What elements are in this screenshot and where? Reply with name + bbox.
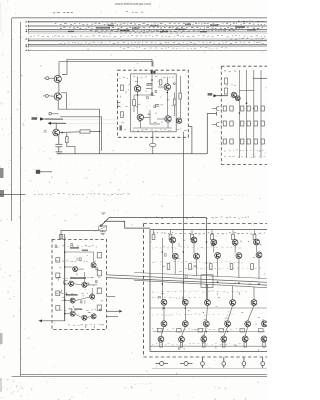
node: [206, 262, 208, 264]
bus wire: [28, 31, 267, 33]
node: [64, 283, 66, 285]
transistor QL4: [82, 282, 87, 287]
resistor: [97, 253, 101, 258]
resistor: [219, 329, 224, 332]
terminal arrow 3: [38, 319, 64, 322]
margin text: [126, 11, 143, 12]
bus labels text row: [120, 47, 227, 48]
bus wire: [28, 25, 267, 27]
node: [163, 307, 165, 309]
resistor R2: [66, 133, 75, 154]
resistor R1: [80, 130, 90, 133]
wire: [232, 230, 234, 235]
wire: [183, 137, 185, 302]
resistor: [189, 264, 192, 270]
module label text: [56, 309, 100, 310]
transistor Q2: [54, 93, 61, 100]
wire: [253, 77, 267, 79]
resistor: [230, 264, 233, 270]
bus wire: [28, 40, 267, 42]
module label text: [152, 247, 241, 248]
bus wire: [28, 21, 267, 23]
node: [64, 299, 66, 301]
bus wire: [28, 29, 267, 31]
connector J1: [156, 362, 169, 366]
node: [182, 251, 184, 253]
transistor QL2: [91, 263, 96, 268]
module inner box: [131, 74, 177, 132]
node: [246, 102, 248, 104]
wire: [207, 112, 216, 154]
module parts scatter: [55, 244, 103, 329]
module label text: [56, 294, 97, 295]
module label text: [177, 129, 187, 130]
capacitor C2: [146, 84, 150, 86]
wire: [188, 127, 192, 154]
wire: [153, 230, 155, 235]
wire: [161, 238, 259, 336]
module label text: [152, 314, 234, 315]
resistor R5: [159, 80, 162, 85]
module label text: [152, 328, 243, 329]
transistor QB3: [215, 253, 221, 259]
resistor: [203, 342, 205, 347]
module label text: [133, 130, 171, 131]
wire: [64, 240, 66, 322]
transistor Q4: [134, 86, 140, 92]
transistor QB4: [236, 253, 242, 259]
transistor Q1: [54, 75, 61, 82]
wire: [57, 153, 207, 155]
margin text: [53, 11, 73, 13]
node: [217, 281, 219, 283]
resistor: [232, 234, 235, 239]
node: [167, 92, 169, 94]
transistor QA2: [191, 237, 197, 243]
terminal node: [49, 112, 59, 115]
wire: [134, 280, 267, 288]
module label text: [152, 343, 240, 344]
module label text: [226, 84, 236, 86]
transistor QA3: [211, 240, 217, 246]
transistor QD4: [225, 321, 231, 327]
wire: [134, 273, 267, 279]
lamp symbol: [150, 143, 156, 146]
wire: [55, 123, 57, 129]
terminal bracket: [212, 106, 219, 110]
node: [227, 331, 229, 333]
wire: [90, 131, 100, 133]
module label text: [56, 246, 97, 247]
node: [206, 331, 208, 333]
resistor: [97, 288, 101, 293]
connector P2: [222, 357, 226, 368]
wire: [0, 194, 25, 196]
module label text: [224, 156, 265, 157]
module box dashed 2: [221, 66, 267, 164]
resistor R8: [120, 112, 123, 118]
pad: [151, 71, 156, 74]
node: [258, 283, 260, 285]
bus labels text row: [228, 21, 263, 22]
wire: [206, 218, 208, 300]
transistor QL7: [70, 311, 75, 316]
diode row: [223, 121, 264, 126]
module label text: [66, 247, 88, 310]
resistor: [160, 342, 162, 347]
ground: [100, 230, 106, 235]
node: [61, 132, 63, 134]
resistor: [97, 305, 101, 310]
module label text: [119, 77, 128, 80]
wire: [179, 99, 181, 118]
module parts scatter: [135, 81, 175, 122]
wire: [211, 230, 213, 235]
wire: [107, 275, 268, 283]
relay coil: [99, 226, 107, 230]
terminal bracket: [212, 122, 219, 126]
connector P1: [201, 357, 205, 368]
transistor QL6: [90, 294, 95, 299]
resistor: [56, 306, 60, 311]
terminal arrow: [48, 122, 118, 125]
resistor: [223, 342, 225, 347]
bus labels text row: [60, 42, 264, 43]
bus labels text row: [230, 38, 266, 39]
connector J2: [180, 362, 193, 366]
module label text: [155, 77, 174, 78]
resistor: [56, 273, 60, 278]
terminal 2x: [208, 93, 228, 97]
module box dashed 3: [52, 240, 107, 330]
resistor: [251, 264, 254, 270]
transistor Q5: [164, 84, 170, 90]
bus wire: [28, 44, 267, 46]
transistor QD3: [203, 321, 209, 327]
wire: [65, 252, 98, 318]
transistor QE4: [221, 336, 227, 342]
wire: [239, 70, 261, 158]
resistor R10: [225, 88, 228, 94]
wire: [152, 368, 267, 370]
bus labels text row: [90, 30, 235, 31]
module label text: [68, 324, 104, 325]
node: [64, 266, 66, 268]
bus labels text row: [55, 23, 265, 24]
resistor R7: [120, 85, 123, 91]
wire: [152, 147, 154, 154]
module label text: [152, 261, 243, 262]
transistor QL1: [73, 267, 78, 272]
transistor QB2: [194, 253, 200, 259]
resistor: [244, 342, 246, 347]
resistor: [56, 291, 60, 296]
transistor QL5: [70, 298, 75, 303]
wire: [61, 231, 99, 240]
resistor: [177, 329, 182, 332]
label text row: [34, 194, 130, 195]
terminal E1: [44, 77, 54, 80]
module box dashed 4: [144, 224, 268, 358]
resistor: [211, 234, 214, 239]
module inner box 2: [150, 230, 267, 352]
wire: [133, 93, 175, 129]
wire: [107, 310, 123, 313]
node: [238, 282, 240, 284]
transistor QC4: [230, 300, 236, 306]
resistor R4: [173, 99, 176, 105]
wire: [239, 90, 253, 92]
resistor R11: [60, 234, 63, 239]
transistor QB5: [256, 252, 262, 258]
transistor Q7: [165, 116, 171, 122]
transistor QC1: [161, 299, 167, 305]
transistor QD6: [262, 321, 268, 327]
wire: [60, 131, 80, 134]
wire: [58, 93, 99, 154]
wire: [107, 278, 268, 286]
module label text: [185, 268, 265, 269]
module label text: [56, 261, 96, 262]
transistor QE2: [179, 336, 185, 342]
transistor QA4: [232, 240, 238, 246]
resistor: [263, 342, 265, 347]
wire: [58, 83, 60, 93]
footer text: [130, 382, 151, 385]
svg-text:JC: JC: [43, 130, 48, 134]
wire: [254, 230, 256, 235]
bus pin labels: [26, 21, 28, 51]
terminal E2: [43, 94, 54, 97]
module header text: [153, 233, 265, 234]
wire: [60, 117, 102, 151]
transistor Q10: [235, 96, 240, 101]
transistor Q9: [231, 92, 236, 97]
bus labels text row: [60, 27, 263, 28]
wire: [179, 76, 181, 93]
module label text: [152, 297, 200, 298]
transistor QE6: [261, 336, 267, 342]
resistor: [191, 234, 194, 239]
module parts scatter: [158, 236, 265, 300]
ground: [56, 152, 63, 154]
transistor Q6: [137, 114, 143, 120]
module label text: [224, 150, 263, 151]
resistor R6: [179, 93, 182, 99]
node: [137, 94, 139, 96]
transistor QD1: [161, 321, 167, 327]
wire: [191, 230, 193, 235]
transistor QE5: [242, 336, 248, 342]
resistor: [97, 271, 101, 276]
resistor: [158, 329, 163, 332]
resistor: [240, 329, 245, 332]
bus labels text row: [95, 32, 185, 33]
module label text: [133, 77, 147, 78]
module label text: [56, 278, 100, 279]
transistor QA5: [254, 239, 260, 245]
connector P3: [242, 357, 246, 368]
transistor QD2: [182, 321, 188, 327]
node: [64, 313, 66, 315]
node: [182, 282, 184, 284]
transistor QL8: [82, 315, 87, 320]
diode row: [223, 139, 264, 144]
module parts scatter: [163, 307, 265, 351]
resistor R9: [225, 78, 228, 84]
transistor QC5: [251, 300, 257, 306]
module label text: [152, 291, 247, 292]
module box dashed: [117, 70, 188, 137]
bus wire: [28, 49, 267, 51]
node: [239, 112, 241, 114]
wire: [153, 132, 184, 144]
svg-text:TP: TP: [101, 212, 106, 216]
node: [206, 241, 208, 243]
resistor: [167, 264, 170, 270]
bus labels text row: [30, 36, 265, 37]
bus wire: [28, 38, 267, 40]
svg-text:www.elektrotanya.com: www.elektrotanya.com: [115, 2, 151, 6]
bus wire: [28, 46, 267, 48]
component box K1: [201, 275, 213, 288]
node: [185, 307, 187, 309]
resistor: [152, 234, 155, 239]
transistor QA1: [170, 237, 176, 243]
transistor QD5: [245, 321, 251, 327]
module label text: [224, 70, 240, 73]
capacitor C1: [55, 136, 62, 152]
transistor QB1: [172, 253, 178, 259]
node: [99, 131, 101, 133]
resistor: [169, 234, 172, 239]
diode row: [223, 106, 264, 111]
transistor QC2: [182, 299, 188, 305]
switch S1: [100, 218, 206, 229]
wire: [150, 308, 267, 346]
node: [64, 251, 66, 253]
resistor R3: [133, 100, 136, 106]
transistor QC3: [205, 300, 211, 306]
transistor QE3: [201, 336, 207, 342]
resistor: [259, 329, 264, 332]
module parts scatter: [120, 84, 130, 129]
node: [162, 251, 164, 253]
pad 2: [120, 126, 122, 131]
resistor: [253, 234, 256, 239]
wire: [107, 297, 119, 317]
connector P4: [261, 357, 265, 368]
terminal NF: [32, 117, 118, 120]
module bracket: [118, 102, 121, 107]
resistor: [210, 264, 213, 270]
node: [151, 79, 153, 81]
module label text: [145, 217, 249, 218]
wire: [170, 230, 172, 235]
label text row: [150, 195, 248, 196]
node: [253, 108, 255, 110]
node: [162, 283, 164, 285]
wire: [138, 73, 168, 115]
capacitor C3: [155, 105, 159, 107]
wire: [59, 59, 153, 75]
transistor QL9: [91, 314, 96, 319]
transistor Q3: [53, 129, 60, 136]
resistor: [56, 258, 60, 263]
resistor: [198, 329, 203, 332]
transistor Q8: [176, 118, 181, 123]
bus text blobs: [68, 24, 256, 33]
bus wire: [28, 32, 267, 34]
terminal arrow 2: [36, 170, 52, 174]
resistor: [180, 342, 182, 347]
transistor QL3: [69, 281, 74, 286]
transistor QE1: [158, 336, 164, 342]
